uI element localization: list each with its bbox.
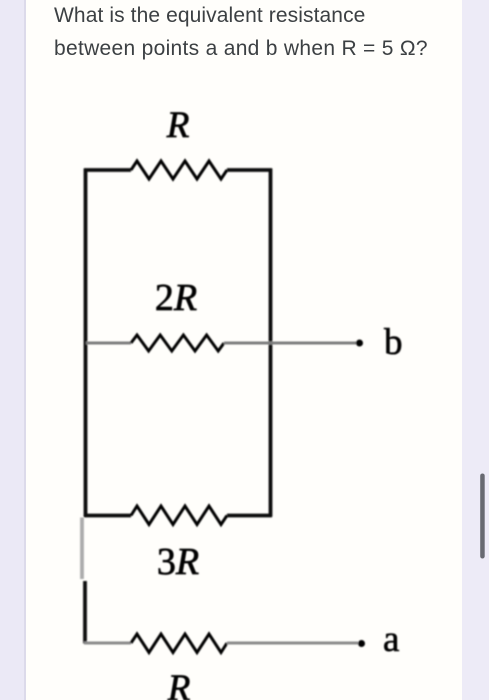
wire: lower-left vertical black segment (83, 581, 87, 644)
label 2R (155, 277, 197, 319)
wire: bottom-right segment of loop from resistor 3R (227, 514, 272, 518)
svg-text:R: R (167, 668, 191, 700)
scrollbar thumb (480, 474, 485, 559)
label a (node a) (383, 619, 399, 660)
resistor R (bottom branch) (131, 634, 227, 653)
wire: right vertical side of loop (269, 169, 273, 517)
svg-text:R: R (166, 105, 190, 146)
wire: lead from 2R to node b (gray) (224, 342, 358, 345)
node b terminal dot (356, 340, 363, 347)
label R (top resistor value) (166, 105, 190, 146)
question text (54, 0, 474, 65)
wire: bottom-left segment of loop to resistor 3R (84, 514, 131, 518)
wire: lead from bottom R to node a (gray) (227, 642, 358, 645)
svg-text:2R: 2R (155, 277, 197, 319)
label 3R (157, 541, 199, 583)
wire: lower-left vertical gray segment (80, 518, 84, 580)
label R (bottom resistor value) (167, 668, 191, 700)
wire: left vertical side of loop (84, 169, 88, 518)
resistor 2R (middle) (131, 335, 224, 351)
wire: top-left segment to resistor R (84, 168, 131, 172)
wire: left lead to resistor 2R (gray) (86, 342, 131, 345)
svg-text:3R: 3R (157, 541, 199, 583)
label b (node b) (384, 322, 403, 363)
resistor R (top) (131, 161, 227, 179)
wire: top-right segment from resistor R (227, 168, 272, 172)
svg-text:a: a (383, 619, 399, 660)
node a terminal dot (358, 640, 365, 647)
left page margin strip (0, 0, 26, 700)
svg-text:b: b (384, 322, 403, 363)
wire: left lead to bottom resistor R (gray) (84, 642, 131, 645)
resistor 3R (bottom of loop) (131, 506, 227, 525)
right page margin strip (462, 0, 489, 700)
